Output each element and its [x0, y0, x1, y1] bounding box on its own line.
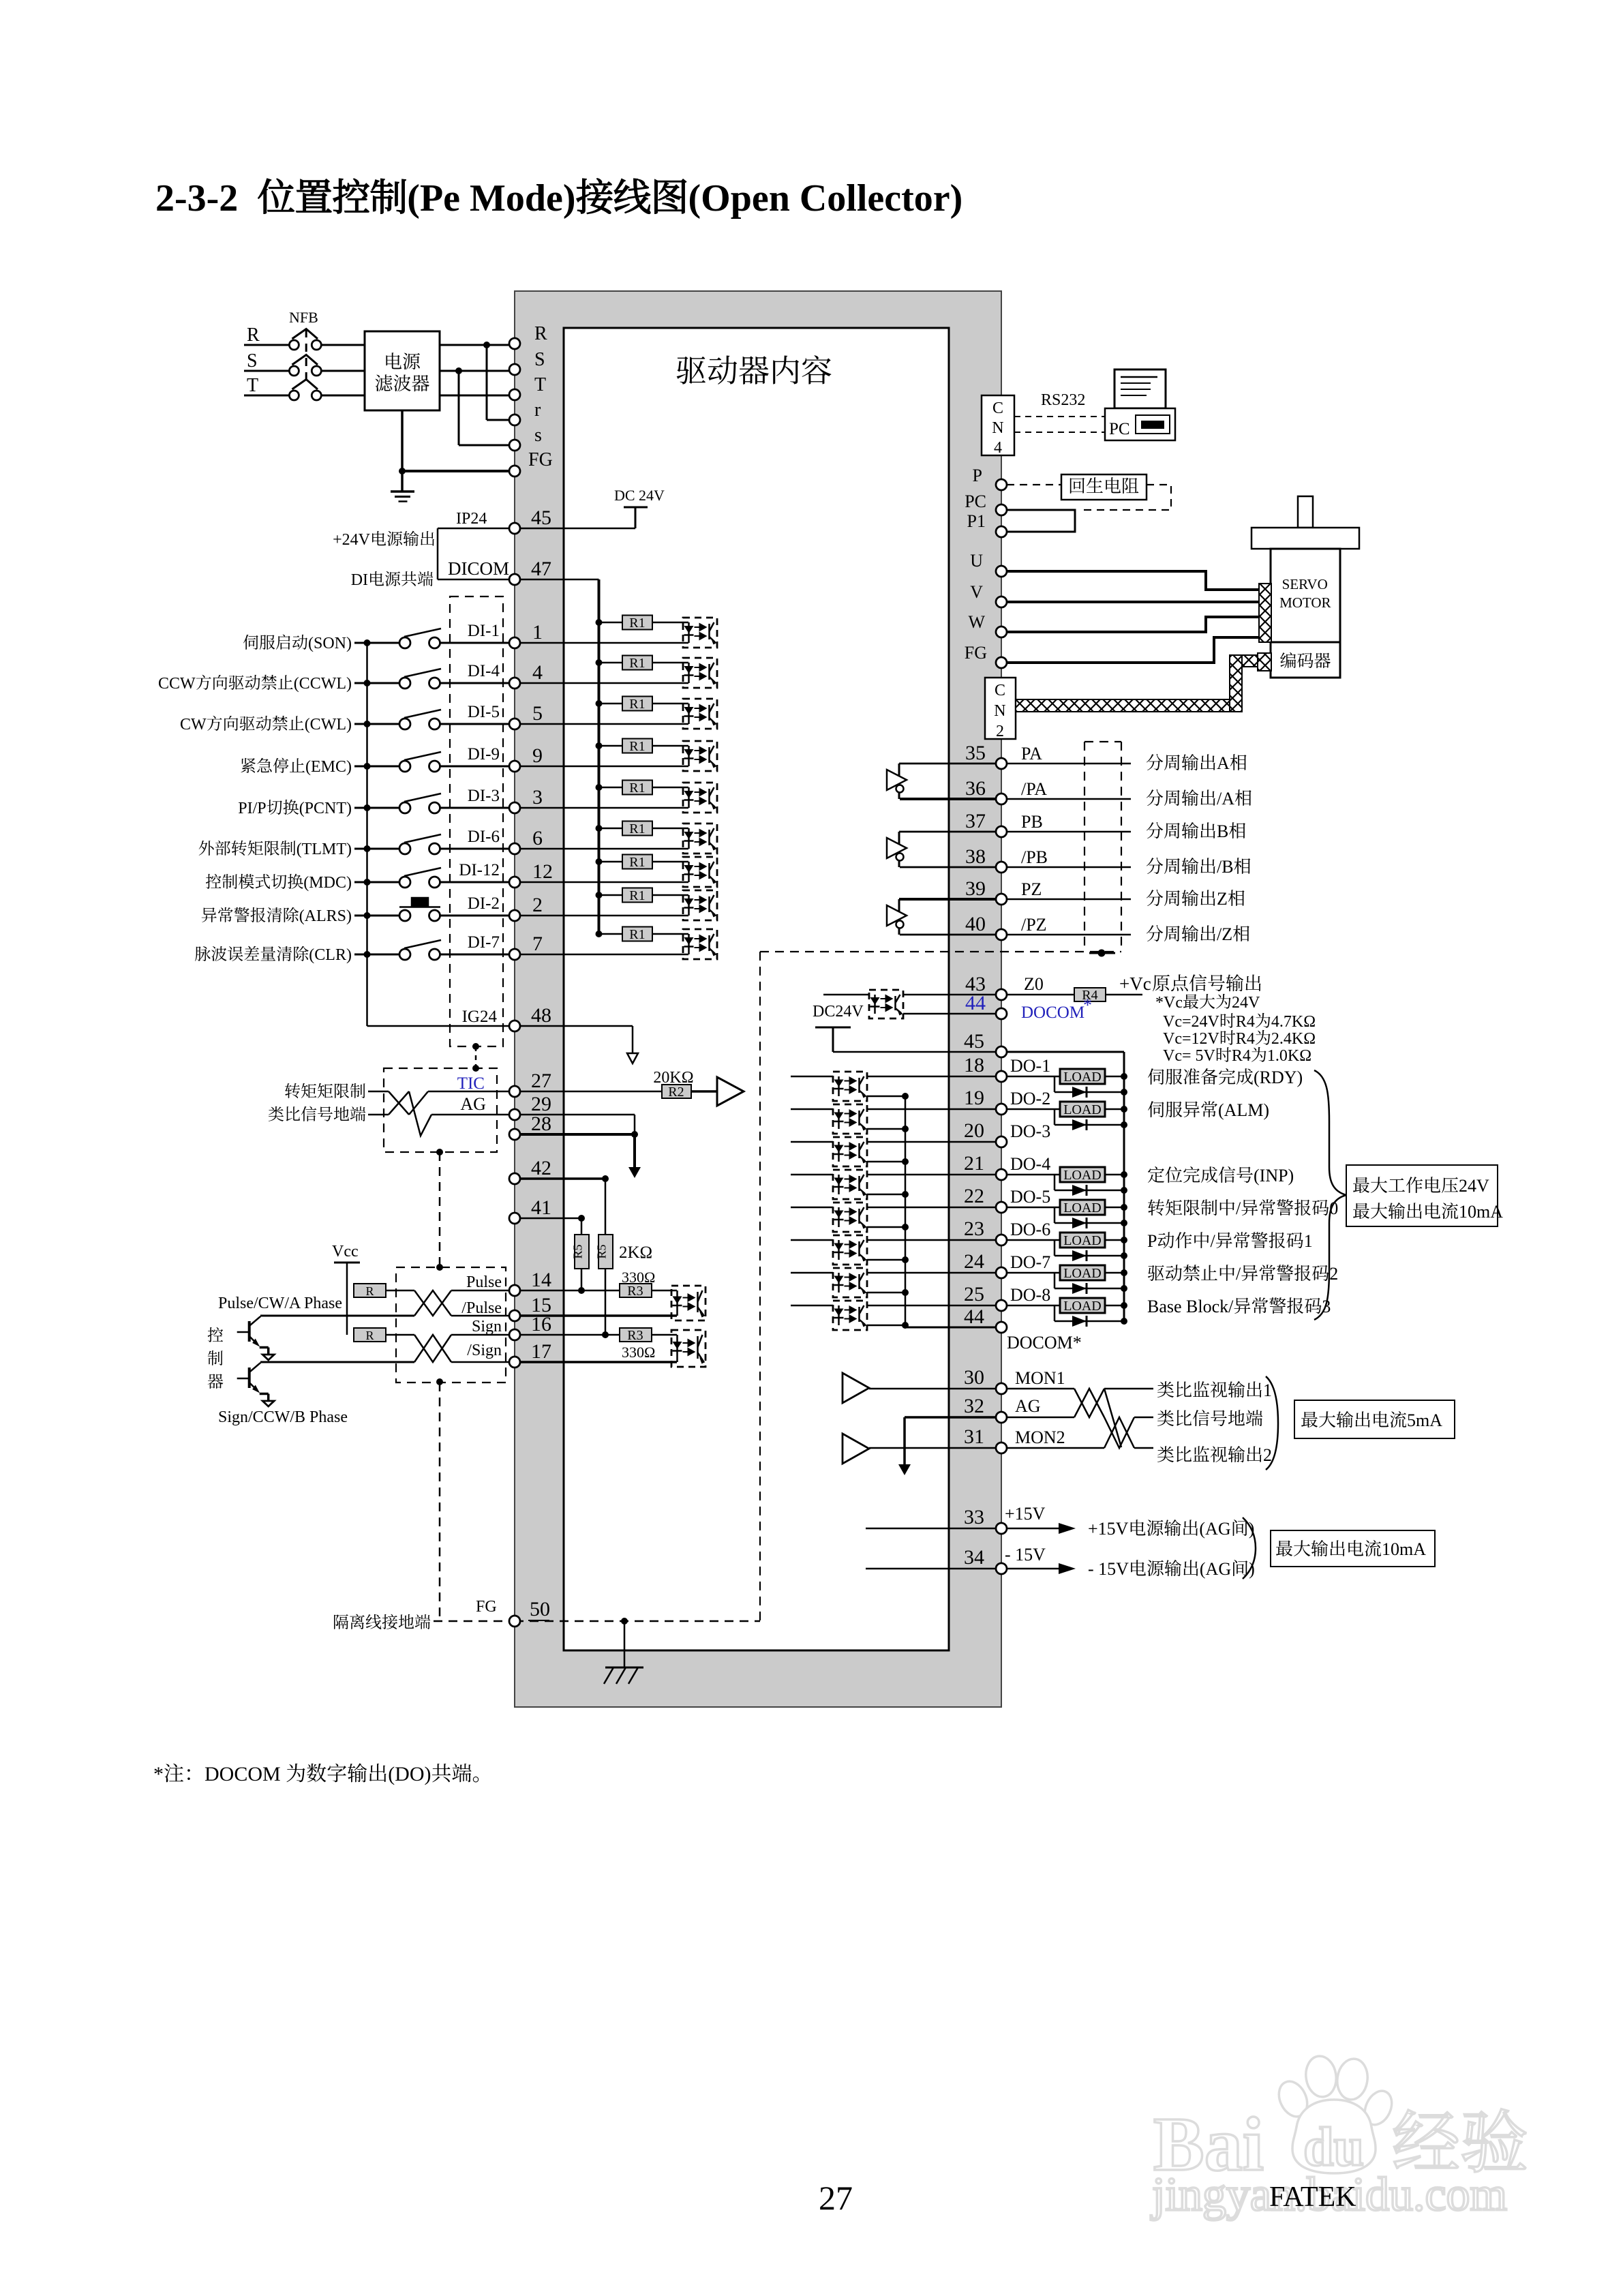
- svg-text:T: T: [247, 375, 258, 396]
- svg-text:47: 47: [531, 558, 551, 580]
- svg-text:R1: R1: [629, 656, 645, 671]
- svg-text:28: 28: [531, 1113, 551, 1135]
- svg-text:42: 42: [531, 1157, 551, 1179]
- svg-text:Vcc: Vcc: [332, 1243, 359, 1260]
- svg-text:R5: R5: [571, 1244, 585, 1258]
- svg-text:4: 4: [532, 661, 543, 684]
- svg-text:Vc=24V: Vc=24V: [1163, 1013, 1220, 1031]
- svg-text:/PA: /PA: [1021, 779, 1047, 799]
- svg-text:r: r: [534, 399, 541, 421]
- svg-text:DICOM: DICOM: [448, 558, 509, 579]
- svg-text:30: 30: [964, 1366, 984, 1389]
- svg-text:21: 21: [964, 1152, 984, 1175]
- svg-text:FG: FG: [476, 1598, 497, 1616]
- svg-text:P: P: [973, 466, 982, 485]
- svg-text:20: 20: [964, 1119, 984, 1142]
- svg-text:DO-2: DO-2: [1010, 1089, 1050, 1108]
- svg-text:Sign: Sign: [472, 1318, 502, 1335]
- svg-text:45: 45: [964, 1030, 984, 1053]
- svg-text:IP24: IP24: [456, 510, 487, 528]
- svg-text:+15V: +15V: [1088, 1519, 1129, 1539]
- svg-text:DI-4: DI-4: [468, 662, 500, 680]
- svg-text:50: 50: [530, 1598, 550, 1620]
- svg-text:CCW: CCW: [158, 675, 196, 693]
- svg-text:2-3-2: 2-3-2: [155, 177, 238, 220]
- svg-text:39: 39: [965, 877, 986, 900]
- svg-text:R4: R4: [1236, 1030, 1255, 1048]
- svg-text:/A: /A: [1217, 789, 1234, 809]
- svg-text:DO-5: DO-5: [1010, 1187, 1050, 1207]
- svg-text:23: 23: [964, 1218, 984, 1240]
- svg-text:4.7KΩ: 4.7KΩ: [1271, 1013, 1316, 1031]
- svg-text:35: 35: [965, 742, 986, 764]
- svg-text:(DO): (DO): [388, 1763, 431, 1785]
- svg-text:R1: R1: [629, 927, 645, 942]
- svg-text:V: V: [970, 582, 983, 602]
- svg-text:Sign/CCW/B Phase: Sign/CCW/B Phase: [218, 1408, 348, 1426]
- svg-text:R2: R2: [668, 1085, 684, 1100]
- svg-text:R3: R3: [627, 1284, 643, 1299]
- svg-text:(Open Collector): (Open Collector): [688, 177, 963, 220]
- svg-text:B: B: [1217, 821, 1228, 841]
- svg-text:16: 16: [531, 1313, 551, 1335]
- svg-text:A: A: [1217, 753, 1230, 773]
- svg-text:(PCNT): (PCNT): [299, 800, 352, 817]
- svg-text:24: 24: [964, 1250, 984, 1273]
- svg-text:/Z: /Z: [1217, 924, 1232, 944]
- svg-text:(INP): (INP): [1254, 1166, 1294, 1185]
- svg-text:DI-5: DI-5: [468, 703, 500, 721]
- svg-text:*: *: [153, 1763, 164, 1785]
- svg-text:34: 34: [964, 1546, 984, 1569]
- svg-text:48: 48: [531, 1004, 551, 1027]
- svg-text:AG: AG: [1015, 1396, 1041, 1416]
- svg-text:(CLR): (CLR): [309, 946, 352, 964]
- svg-text:(AG: (AG: [1200, 1559, 1231, 1579]
- svg-text:R1: R1: [629, 821, 645, 836]
- svg-text:38: 38: [965, 845, 986, 868]
- svg-text:24V: 24V: [1232, 994, 1260, 1012]
- svg-text:330Ω: 330Ω: [622, 1344, 655, 1361]
- svg-text:LOAD: LOAD: [1063, 1266, 1102, 1281]
- svg-text:33: 33: [964, 1506, 984, 1528]
- svg-text:(ALM): (ALM): [1218, 1100, 1269, 1120]
- svg-text:36: 36: [965, 777, 986, 800]
- svg-text:/B: /B: [1217, 857, 1234, 877]
- svg-text:12: 12: [532, 860, 553, 883]
- svg-text:R1: R1: [629, 855, 645, 870]
- svg-text:P: P: [1147, 1231, 1157, 1251]
- svg-text:R: R: [366, 1329, 374, 1342]
- svg-text:DI-6: DI-6: [468, 828, 500, 846]
- svg-text:2.4KΩ: 2.4KΩ: [1271, 1030, 1316, 1048]
- svg-text:N: N: [992, 419, 1003, 437]
- svg-text:DOCOM*: DOCOM*: [1007, 1333, 1082, 1353]
- svg-text:MOTOR: MOTOR: [1279, 594, 1331, 611]
- svg-text:6: 6: [532, 827, 543, 849]
- svg-text:41: 41: [531, 1196, 551, 1219]
- svg-text:PZ: PZ: [1021, 879, 1042, 899]
- svg-text:LOAD: LOAD: [1063, 1200, 1102, 1215]
- svg-text:LOAD: LOAD: [1063, 1233, 1102, 1248]
- svg-text:44: 44: [964, 1305, 984, 1328]
- svg-text:R1: R1: [629, 888, 645, 903]
- svg-text:R: R: [247, 324, 260, 346]
- svg-text:DOCOM: DOCOM: [1021, 1003, 1084, 1022]
- svg-text:1: 1: [532, 621, 543, 644]
- svg-text:45: 45: [531, 507, 551, 529]
- svg-text:/Sign: /Sign: [467, 1342, 502, 1359]
- svg-text:(EMC): (EMC): [305, 758, 352, 776]
- svg-text:DI-2: DI-2: [468, 894, 500, 913]
- svg-text:MON1: MON1: [1015, 1368, 1065, 1388]
- svg-text:3: 3: [532, 786, 543, 809]
- svg-text:*: *: [1083, 995, 1092, 1015]
- svg-text:DOCOM: DOCOM: [204, 1763, 281, 1785]
- svg-text:22: 22: [964, 1185, 984, 1207]
- svg-text:27: 27: [819, 2179, 853, 2217]
- svg-text:P1: P1: [967, 511, 986, 531]
- svg-text:FATEK: FATEK: [1269, 2181, 1356, 2213]
- svg-text:/: /: [1236, 1198, 1241, 1218]
- svg-text:44: 44: [965, 992, 986, 1014]
- svg-text:18: 18: [964, 1054, 984, 1076]
- svg-text:(CCWL): (CCWL): [294, 675, 352, 693]
- svg-text:s: s: [534, 425, 542, 446]
- svg-text:CW: CW: [180, 716, 207, 734]
- svg-text:2: 2: [996, 723, 1004, 740]
- svg-text:- 15V: - 15V: [1005, 1545, 1046, 1565]
- svg-text:R1: R1: [629, 781, 645, 796]
- svg-text:N: N: [994, 702, 1005, 720]
- svg-text:5mA: 5mA: [1407, 1410, 1442, 1430]
- svg-text:10mA: 10mA: [1382, 1539, 1426, 1559]
- svg-text:(SON): (SON): [308, 635, 352, 652]
- svg-text:DI-12: DI-12: [459, 861, 500, 879]
- svg-text:LOAD: LOAD: [1063, 1168, 1102, 1183]
- svg-text:24V: 24V: [1459, 1176, 1489, 1196]
- svg-text:Vc=12V: Vc=12V: [1163, 1030, 1220, 1048]
- svg-text:/: /: [1211, 1231, 1216, 1251]
- svg-text:(TLMT): (TLMT): [297, 841, 352, 858]
- svg-text:1: 1: [1304, 1231, 1313, 1251]
- svg-text:+15V: +15V: [1005, 1504, 1046, 1524]
- svg-text:(Pe Mode): (Pe Mode): [407, 177, 575, 220]
- svg-text:C: C: [995, 682, 1005, 699]
- svg-text:R3: R3: [627, 1328, 643, 1343]
- svg-text:U: U: [970, 551, 983, 571]
- svg-text:DI-7: DI-7: [468, 933, 500, 952]
- svg-text:37: 37: [965, 810, 986, 832]
- svg-text:Vc= 5V: Vc= 5V: [1163, 1047, 1216, 1065]
- svg-text:SERVO: SERVO: [1282, 576, 1328, 592]
- svg-text:2: 2: [1329, 1264, 1338, 1284]
- svg-text:2: 2: [1263, 1445, 1272, 1465]
- svg-text:Z: Z: [1217, 889, 1228, 909]
- svg-text:/Pulse: /Pulse: [461, 1299, 502, 1317]
- svg-text:/PB: /PB: [1021, 847, 1048, 867]
- svg-text:FG: FG: [528, 449, 553, 470]
- svg-text:2KΩ: 2KΩ: [619, 1243, 652, 1262]
- svg-text:PA: PA: [1021, 744, 1042, 764]
- svg-text:LOAD: LOAD: [1063, 1102, 1102, 1117]
- svg-text:MON2: MON2: [1015, 1428, 1065, 1447]
- svg-text:DO-7: DO-7: [1010, 1252, 1050, 1272]
- svg-text:32: 32: [964, 1395, 984, 1417]
- svg-text:(CWL): (CWL): [305, 716, 352, 734]
- svg-text:Pulse/CW/A Phase: Pulse/CW/A Phase: [218, 1295, 342, 1312]
- svg-text:R4: R4: [1236, 1013, 1255, 1031]
- svg-text:40: 40: [965, 913, 986, 935]
- svg-text:S: S: [247, 350, 258, 372]
- svg-text:9: 9: [532, 744, 543, 767]
- svg-text:330Ω: 330Ω: [622, 1269, 655, 1286]
- svg-text:(RDY): (RDY): [1254, 1068, 1303, 1087]
- svg-text:DO-4: DO-4: [1010, 1154, 1050, 1174]
- svg-text:(MDC): (MDC): [303, 874, 352, 892]
- svg-text:+Vc: +Vc: [1119, 973, 1151, 994]
- svg-text:4: 4: [994, 439, 1002, 457]
- svg-text:31: 31: [964, 1425, 984, 1448]
- svg-text:2: 2: [532, 894, 543, 916]
- svg-text:17: 17: [531, 1340, 551, 1363]
- svg-text:LOAD: LOAD: [1063, 1299, 1102, 1314]
- svg-text:5: 5: [532, 702, 543, 725]
- svg-text:R: R: [534, 323, 547, 344]
- svg-text:LOAD: LOAD: [1063, 1070, 1102, 1085]
- svg-text:Z0: Z0: [1024, 974, 1044, 994]
- svg-text:Pulse: Pulse: [466, 1273, 502, 1291]
- svg-text:R1: R1: [629, 697, 645, 712]
- svg-text:19: 19: [964, 1087, 984, 1109]
- svg-text:10mA: 10mA: [1459, 1202, 1503, 1222]
- svg-text:Base Block/: Base Block/: [1147, 1297, 1234, 1316]
- svg-text:R4: R4: [1232, 1047, 1251, 1065]
- svg-text:DI-1: DI-1: [468, 622, 500, 640]
- svg-text:DI-3: DI-3: [468, 787, 500, 805]
- svg-text:R1: R1: [629, 616, 645, 631]
- svg-text:DO-1: DO-1: [1010, 1056, 1050, 1076]
- svg-text:W: W: [969, 612, 986, 632]
- svg-text:- 15V: - 15V: [1088, 1559, 1129, 1579]
- svg-text:DO-8: DO-8: [1010, 1285, 1050, 1305]
- svg-text:R5: R5: [595, 1244, 609, 1258]
- svg-text:(ALRS): (ALRS): [299, 907, 352, 925]
- svg-text:14: 14: [531, 1269, 551, 1291]
- svg-text:TIC: TIC: [457, 1074, 485, 1093]
- svg-text:NFB: NFB: [289, 309, 318, 326]
- svg-text:PB: PB: [1021, 812, 1043, 832]
- svg-text:PC: PC: [1109, 420, 1130, 438]
- svg-text:25: 25: [964, 1283, 984, 1305]
- svg-text:1.0KΩ: 1.0KΩ: [1267, 1047, 1311, 1065]
- svg-text:RS232: RS232: [1041, 391, 1085, 409]
- svg-text:PC: PC: [965, 492, 986, 511]
- svg-text:DC24V: DC24V: [813, 1003, 864, 1021]
- svg-text:R1: R1: [629, 739, 645, 754]
- svg-text:/: /: [1236, 1264, 1241, 1284]
- svg-text:20KΩ: 20KΩ: [653, 1069, 693, 1087]
- svg-text:*Vc: *Vc: [1155, 994, 1183, 1012]
- svg-text:S: S: [534, 349, 545, 370]
- svg-text:IG24: IG24: [462, 1008, 498, 1026]
- svg-text:DC 24V: DC 24V: [614, 487, 665, 504]
- svg-text:7: 7: [532, 933, 543, 955]
- svg-text:R: R: [366, 1284, 374, 1298]
- svg-text:PI/P: PI/P: [238, 800, 266, 817]
- svg-text:DI: DI: [351, 571, 368, 589]
- svg-text:DI-9: DI-9: [468, 745, 500, 764]
- svg-text:+24V: +24V: [333, 531, 371, 549]
- svg-text:/PZ: /PZ: [1021, 915, 1047, 935]
- svg-text:DO-3: DO-3: [1010, 1121, 1050, 1141]
- svg-text:T: T: [534, 374, 546, 395]
- svg-text:DO-6: DO-6: [1010, 1220, 1050, 1239]
- svg-text:AG: AG: [460, 1094, 486, 1114]
- svg-text:(AG: (AG: [1199, 1519, 1230, 1539]
- svg-text:C: C: [992, 399, 1003, 417]
- svg-text:27: 27: [531, 1070, 551, 1092]
- svg-text:FG: FG: [965, 643, 987, 663]
